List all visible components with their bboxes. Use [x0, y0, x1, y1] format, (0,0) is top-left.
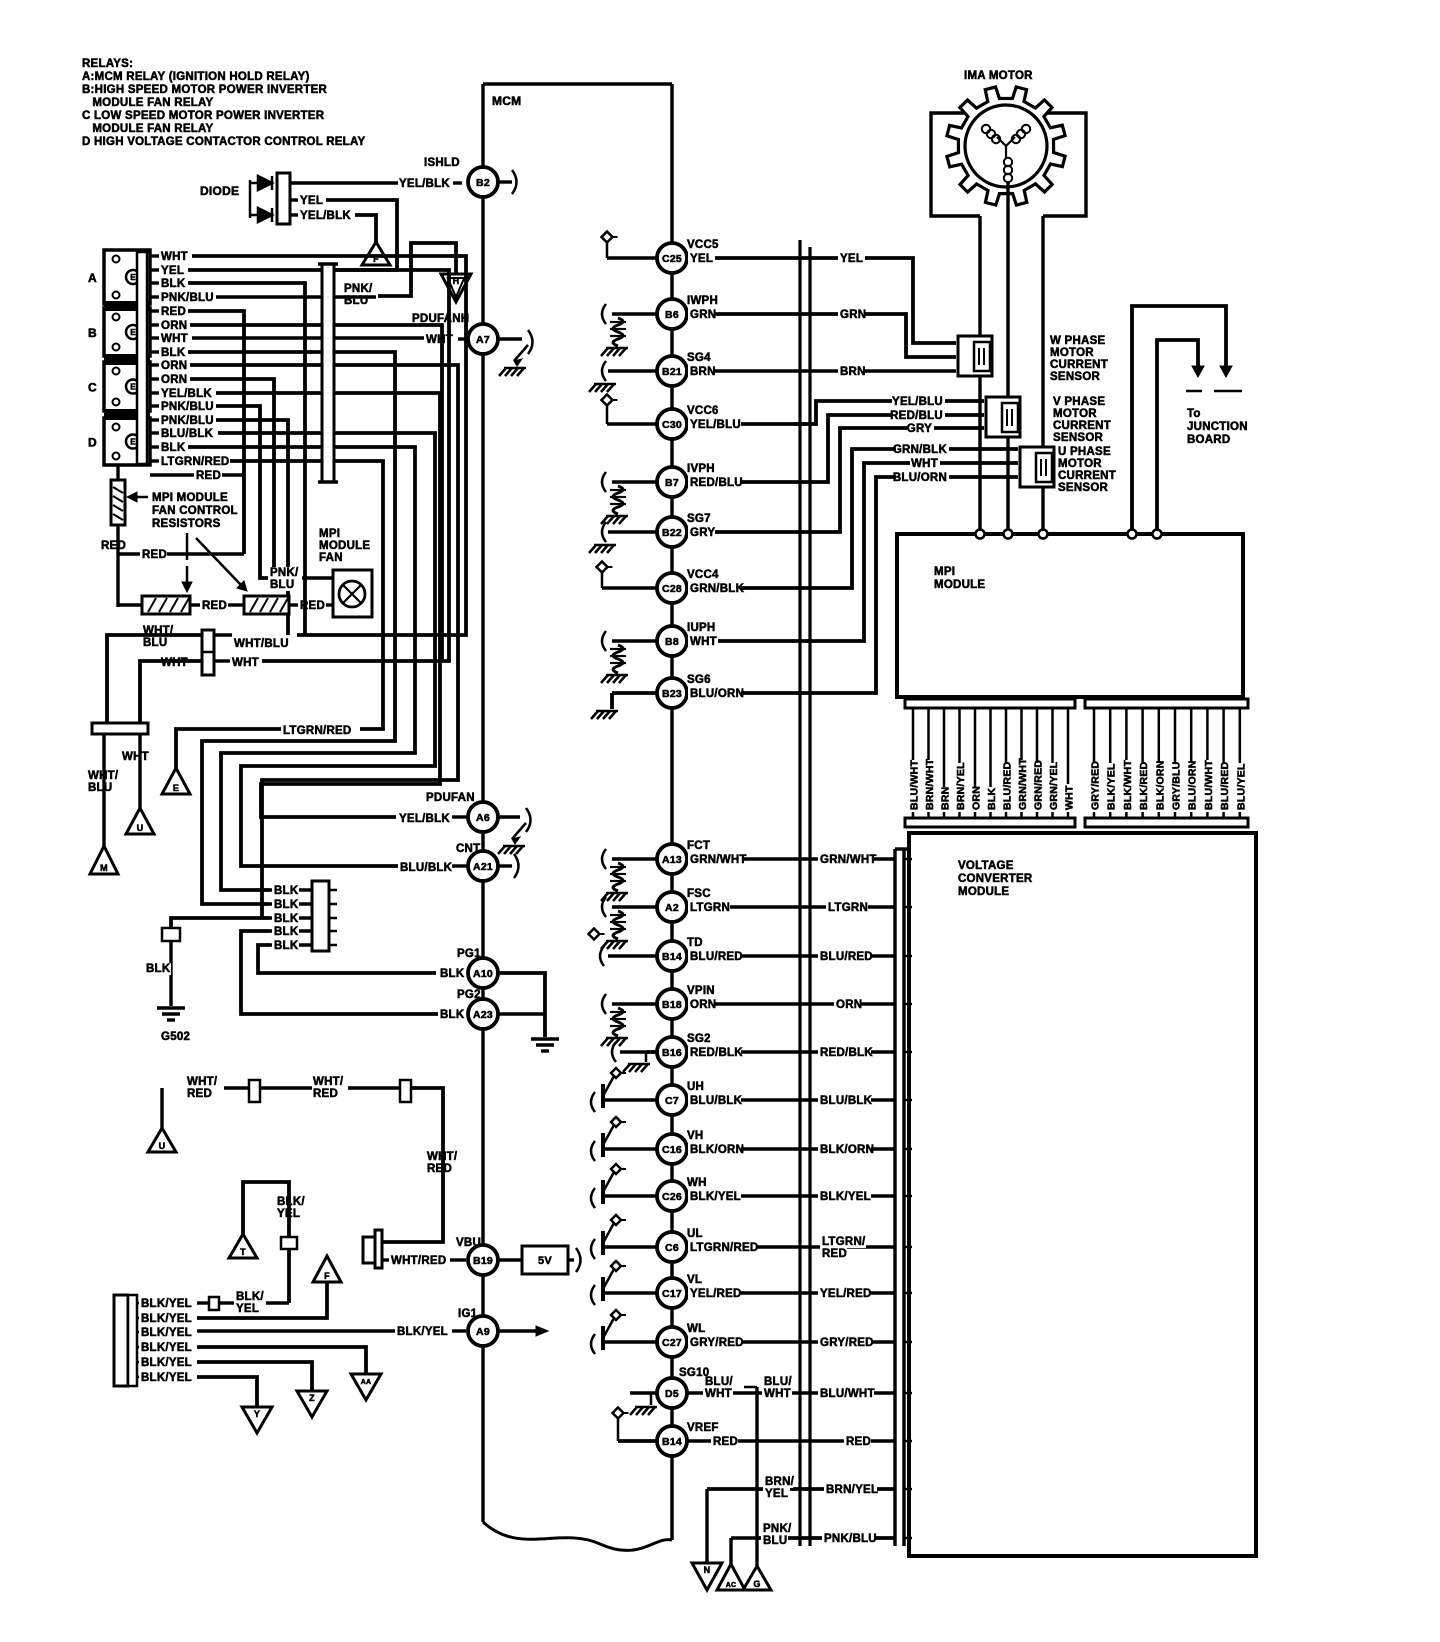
wire BLK relay row y=352: [150, 350, 159, 353]
wire to junction board 2: [1157, 340, 1198, 532]
fuse inline 1: [249, 1080, 260, 1102]
wire LTGRN/RED relay D to connector E: [230, 461, 383, 729]
svg-text:GRY/RED: GRY/RED: [690, 1337, 744, 1349]
svg-text:LTGRN: LTGRN: [828, 902, 868, 914]
wire RED VREF to voltage converter module: [687, 1439, 895, 1442]
svg-text:MODULE FAN RELAY: MODULE FAN RELAY: [82, 97, 214, 109]
wire YEL/RED to voltage converter module: [687, 1291, 895, 1294]
svg-text:BLU/BLK: BLU/BLK: [161, 428, 214, 440]
wire GRN/BLK C28 to U phase sensor: [687, 449, 1018, 588]
wire RED relay D row: [150, 473, 194, 476]
U phase motor current sensor: [1020, 447, 1054, 487]
svg-text:RED/BLU: RED/BLU: [890, 410, 943, 422]
svg-text:RED: RED: [187, 1088, 212, 1100]
svg-text:SG2: SG2: [687, 1033, 711, 1045]
wire pin BLK: [989, 708, 992, 818]
node B22 left ground: [608, 530, 657, 533]
node B18 VPIN: [657, 989, 687, 1019]
svg-text:BLK: BLK: [440, 968, 465, 980]
svg-text:M: M: [100, 863, 108, 873]
svg-text:FCT: FCT: [687, 840, 710, 852]
connector Z triangle: [297, 1391, 327, 1417]
splice connector WHT/BLU: [202, 630, 214, 675]
svg-text:B22: B22: [662, 527, 682, 539]
MPI module lower connector bar left: [905, 699, 1075, 708]
svg-text:GRN/YEL: GRN/YEL: [1048, 761, 1060, 810]
svg-text:MODULE: MODULE: [934, 579, 985, 591]
node D5 left ground: [630, 1391, 657, 1394]
node C7 UH: [657, 1085, 687, 1115]
wire BLK/YEL to voltage converter module: [687, 1194, 895, 1197]
svg-text:B:HIGH SPEED MOTOR POWER INVER: B:HIGH SPEED MOTOR POWER INVERTER: [82, 84, 328, 96]
svg-text:PNK/: PNK/: [763, 1523, 792, 1535]
wire YEL/BLU C30 to V phase sensor: [687, 401, 984, 424]
svg-text:E: E: [130, 438, 136, 447]
svg-text:LTGRN/RED: LTGRN/RED: [161, 456, 229, 468]
node A6 PDUFAN: [452, 815, 468, 818]
svg-text:WHT/: WHT/: [427, 1151, 458, 1163]
svg-text:A21: A21: [473, 861, 493, 873]
connector AA triangle: [351, 1374, 381, 1400]
svg-text:PNK/BLU: PNK/BLU: [161, 415, 214, 427]
svg-text:AA: AA: [361, 1379, 372, 1386]
svg-text:VCC6: VCC6: [687, 405, 719, 417]
svg-text:B18: B18: [662, 999, 682, 1011]
node B6 IWPH: [657, 299, 687, 329]
svg-text:WHT: WHT: [122, 751, 149, 763]
wire BLK ground pin y=945: [270, 943, 312, 946]
svg-text:ORN: ORN: [690, 999, 716, 1011]
wire BLK pin5 to A10: [258, 945, 436, 973]
node C28 VCC4: [657, 573, 687, 603]
svg-text:BLK/RED: BLK/RED: [1138, 761, 1150, 810]
svg-text:WHT: WHT: [911, 458, 938, 470]
node B7 IVPH: [657, 467, 687, 497]
diode D1 bottom: [258, 208, 272, 222]
connector F2 triangle: [313, 1256, 341, 1282]
wire BLK/YEL pin5 to Z: [197, 1362, 312, 1391]
svg-text:GRY/RED: GRY/RED: [820, 1337, 874, 1349]
svg-text:BOARD: BOARD: [1187, 434, 1230, 446]
svg-text:WHT: WHT: [705, 1388, 732, 1400]
wire LTGRN/RED C6 to voltage converter module: [687, 1245, 895, 1248]
svg-text:BLK/: BLK/: [277, 1196, 305, 1208]
svg-text:WHT: WHT: [161, 251, 188, 263]
MPI module box: [897, 534, 1243, 697]
relay C connector: [104, 362, 150, 411]
node B14 TD: [657, 941, 687, 971]
svg-text:BLU/ORN: BLU/ORN: [893, 472, 947, 484]
svg-text:PNK/BLU: PNK/BLU: [824, 1533, 877, 1545]
svg-text:BLU/WHT: BLU/WHT: [820, 1388, 875, 1400]
wire RED/BLK to voltage converter module: [687, 1050, 895, 1053]
node C7 left transistor: [591, 1092, 595, 1112]
svg-text:IUPH: IUPH: [687, 622, 715, 634]
svg-text:RED: RED: [161, 306, 186, 318]
inline connector BLK: [162, 928, 180, 941]
wire WHT/BLU down to M: [102, 734, 105, 847]
svg-text:BLU: BLU: [88, 782, 112, 794]
svg-text:ORN: ORN: [836, 999, 862, 1011]
svg-text:WHT: WHT: [1064, 785, 1076, 810]
V phase motor current sensor: [986, 397, 1020, 437]
wire diode anodes: [250, 182, 258, 185]
svg-text:MOTOR: MOTOR: [1053, 408, 1097, 420]
node C6 UL: [657, 1232, 687, 1262]
wire BLU/BLK relay row y=433: [150, 431, 159, 434]
svg-text:VPIN: VPIN: [687, 985, 715, 997]
svg-text:E: E: [130, 383, 136, 392]
svg-text:BLK/YEL: BLK/YEL: [141, 1313, 192, 1325]
wire BLU/WHT branch to connector G: [744, 1386, 757, 1389]
svg-text:VCC5: VCC5: [687, 239, 719, 251]
svg-text:W PHASE: W PHASE: [1050, 335, 1106, 347]
svg-text:ORN: ORN: [161, 320, 187, 332]
svg-text:MOTOR: MOTOR: [1058, 458, 1102, 470]
svg-text:LTGRN/: LTGRN/: [822, 1236, 866, 1248]
svg-text:GRN: GRN: [690, 309, 716, 321]
svg-text:G: G: [753, 1579, 760, 1589]
svg-text:VREF: VREF: [687, 1422, 719, 1434]
svg-text:WHT: WHT: [161, 657, 188, 669]
node C27 left transistor: [591, 1334, 595, 1354]
wire YEL/BLK relay C to A6: [216, 393, 440, 817]
IMA motor windings: [997, 137, 1006, 146]
node A10 PG1: [468, 958, 498, 988]
wire GRN/WHT to voltage converter module: [687, 857, 895, 860]
svg-text:GRY: GRY: [690, 527, 715, 539]
svg-text:U PHASE: U PHASE: [1058, 446, 1111, 458]
svg-text:YEL/BLK: YEL/BLK: [161, 388, 212, 400]
wire ORN relay C staircase 1: [190, 365, 458, 918]
svg-text:E: E: [130, 273, 136, 282]
node B7 left coil ground: [612, 480, 657, 483]
wire BLU/RED to voltage converter module: [687, 954, 895, 957]
node A9 IG1: [197, 1329, 395, 1332]
wire BLK ground pin y=931: [270, 929, 312, 932]
wire BLK/YEL pin4 to AA: [197, 1347, 366, 1374]
wire RED to resistor R2: [118, 603, 142, 606]
wire PNK/BLU to voltage converter module: [757, 1536, 895, 1540]
svg-text:SENSOR: SENSOR: [1050, 371, 1101, 383]
svg-text:WH: WH: [687, 1177, 707, 1189]
svg-text:WHT/: WHT/: [187, 1076, 218, 1088]
wire BLU/BLK to voltage converter module: [687, 1098, 895, 1101]
wire WHT B8 to U phase sensor: [687, 463, 1018, 641]
svg-text:B21: B21: [662, 366, 682, 378]
wire LTGRN/RED relay row y=461: [150, 459, 159, 462]
svg-text:BLU/RED: BLU/RED: [1002, 761, 1014, 810]
connector G triangle: [743, 1566, 771, 1590]
node A13 FCT: [657, 844, 687, 874]
svg-text:BLK/YEL: BLK/YEL: [141, 1298, 192, 1310]
svg-text:RED: RED: [101, 540, 126, 552]
svg-text:WL: WL: [687, 1323, 705, 1335]
node B14 VREF: [657, 1426, 687, 1456]
wire PNK/BLU relay A to connector H: [378, 243, 456, 296]
wire BLK pin4 to A23: [241, 931, 438, 1014]
svg-text:BLU/RED: BLU/RED: [1219, 761, 1231, 810]
svg-text:C26: C26: [662, 1191, 682, 1203]
wire BLK ground pin y=904: [270, 902, 312, 905]
voltage converter strip ticks: [904, 858, 912, 861]
svg-text:MPI: MPI: [319, 528, 340, 540]
svg-text:BLK: BLK: [274, 885, 299, 897]
svg-text:BRN/WHT: BRN/WHT: [924, 758, 936, 810]
wire pin BLK/RED: [1141, 708, 1144, 818]
svg-text:BRN/YEL: BRN/YEL: [955, 762, 967, 810]
svg-text:VCC4: VCC4: [687, 569, 719, 581]
junction board dashes: [1186, 390, 1202, 393]
svg-text:TD: TD: [687, 937, 703, 949]
node B16 left ground: [646, 1050, 657, 1054]
svg-text:UH: UH: [687, 1081, 704, 1093]
wire BRN/YEL to voltage converter module: [707, 1487, 895, 1491]
svg-text:IMA MOTOR: IMA MOTOR: [964, 70, 1033, 82]
svg-text:WHT: WHT: [161, 333, 188, 345]
node A7 PDUFANH: [468, 324, 498, 354]
wire PNK/BLU relay A right: [216, 295, 376, 298]
svg-text:PNK/BLU: PNK/BLU: [161, 292, 214, 304]
node D5 SG10: [657, 1378, 687, 1408]
wire YEL diode: [290, 198, 298, 201]
svg-text:A23: A23: [473, 1009, 493, 1021]
svg-text:YEL/RED: YEL/RED: [820, 1288, 872, 1300]
svg-text:FSC: FSC: [687, 888, 711, 900]
svg-text:PG1: PG1: [457, 948, 481, 960]
shield bus line 2: [808, 247, 811, 1546]
svg-text:BLU/: BLU/: [764, 1376, 792, 1388]
svg-text:D HIGH VOLTAGE CONTACTOR CONTR: D HIGH VOLTAGE CONTACTOR CONTROL RELAY: [82, 136, 365, 148]
fuse inline 2: [400, 1080, 411, 1102]
node B21 left ground diamond: [608, 369, 657, 372]
svg-text:YEL: YEL: [690, 253, 713, 265]
svg-text:VBU: VBU: [456, 1237, 481, 1249]
wire PNK/BLU relay row y=406: [150, 404, 159, 407]
node C27 WL: [657, 1327, 687, 1357]
svg-text:N: N: [704, 1565, 711, 1575]
relay connector separator bands: [104, 301, 150, 311]
svg-text:VOLTAGE: VOLTAGE: [958, 860, 1014, 872]
wire BLK to ground: [169, 941, 172, 1006]
svg-text:CNT: CNT: [456, 843, 480, 855]
svg-text:BLU/BLK: BLU/BLK: [400, 862, 453, 874]
svg-text:GRY/BLU: GRY/BLU: [1171, 761, 1183, 810]
svg-text:D5: D5: [665, 1388, 679, 1400]
svg-text:WHT/: WHT/: [143, 625, 174, 637]
svg-text:GRY/RED: GRY/RED: [1090, 761, 1102, 810]
svg-text:PG2: PG2: [457, 989, 481, 1001]
svg-text:ORN: ORN: [161, 360, 187, 372]
svg-text:F: F: [324, 1271, 330, 1281]
wire PNK/BLU relay row y=297: [150, 295, 159, 298]
connector H triangle: [441, 274, 471, 302]
svg-text:C7: C7: [665, 1095, 679, 1107]
node B19 VBU: [468, 1245, 498, 1275]
svg-text:B19: B19: [473, 1255, 493, 1267]
svg-text:WHT/: WHT/: [313, 1076, 344, 1088]
svg-text:GRY: GRY: [907, 423, 932, 435]
svg-text:BLK: BLK: [440, 1009, 465, 1021]
svg-text:GRN/WHT: GRN/WHT: [1017, 758, 1029, 810]
node B6 left coil ground: [612, 312, 657, 315]
svg-text:B23: B23: [662, 688, 682, 700]
svg-text:RELAYS:: RELAYS:: [82, 58, 133, 70]
svg-text:WHT: WHT: [232, 657, 259, 669]
wire pin GRN/YEL: [1051, 708, 1054, 818]
svg-text:RED/BLU: RED/BLU: [690, 477, 743, 489]
MPI module top connector dots: [976, 530, 985, 539]
IMA motor gear: [947, 87, 1065, 205]
diode connector bar: [277, 173, 290, 224]
svg-text:PDUFANH: PDUFANH: [412, 313, 469, 325]
wire BLK/YEL pin y=1318: [137, 1317, 140, 1320]
wire pin ORN: [974, 708, 977, 818]
svg-text:RED/BLK: RED/BLK: [820, 1047, 873, 1059]
svg-text:BLK: BLK: [274, 940, 299, 952]
node B16 SG2: [657, 1037, 687, 1067]
node B14 VREF left diamond: [618, 1439, 657, 1443]
svg-text:RED: RED: [822, 1248, 847, 1260]
svg-text:BRN: BRN: [840, 366, 866, 378]
node A2 FSC: [657, 892, 687, 922]
svg-text:BLK/YEL: BLK/YEL: [141, 1342, 192, 1354]
svg-text:A2: A2: [665, 902, 679, 914]
svg-text:BLK/ORN: BLK/ORN: [1154, 760, 1166, 810]
svg-text:YEL: YEL: [277, 1208, 300, 1220]
svg-text:BLK: BLK: [986, 788, 998, 810]
arrow to resistor R3: [196, 538, 241, 585]
connector VBU: [363, 1237, 375, 1263]
wire WHT splice right: [214, 659, 230, 662]
wire pin BLU/WHT: [912, 708, 915, 818]
svg-text:VL: VL: [687, 1274, 702, 1286]
relay connector spine: [137, 252, 147, 464]
wire PNK/BLU relay row y=420: [150, 418, 159, 421]
svg-text:PDUFAN: PDUFAN: [426, 792, 475, 804]
svg-text:U: U: [159, 1141, 166, 1151]
svg-text:MODULE: MODULE: [319, 540, 370, 552]
svg-text:YEL: YEL: [236, 1303, 259, 1315]
arrow to resistor R2: [186, 533, 189, 560]
svg-text:SENSOR: SENSOR: [1053, 432, 1104, 444]
node B23 SG6: [657, 678, 687, 708]
svg-text:E: E: [130, 328, 136, 337]
svg-text:MODULE: MODULE: [958, 886, 1009, 898]
wire RED resistor to fan: [289, 603, 298, 606]
svg-text:BLK/: BLK/: [236, 1291, 264, 1303]
wire A9 arrow right: [498, 1329, 540, 1332]
wire GRN B6 to W phase sensor: [687, 314, 956, 357]
shield bus line 1: [798, 240, 801, 1546]
svg-text:BLU/BLK: BLU/BLK: [690, 1095, 743, 1107]
voltage converter module box: [909, 833, 1256, 1556]
svg-text:BLK: BLK: [161, 278, 186, 290]
wire pin BRN/YEL: [958, 708, 961, 818]
svg-text:BLK: BLK: [161, 442, 186, 454]
svg-text:JUNCTION: JUNCTION: [1187, 421, 1248, 433]
node A23 PG2: [468, 999, 498, 1029]
wire pin WHT: [1067, 708, 1070, 818]
wire to junction board 1: [1132, 306, 1226, 532]
svg-text:SG4: SG4: [687, 352, 711, 364]
wire ORN relay row y=379: [150, 377, 159, 380]
voltage converter upper connector bar left: [905, 818, 1075, 827]
svg-text:GRN/BLK: GRN/BLK: [690, 583, 745, 595]
svg-text:GRN: GRN: [840, 309, 866, 321]
svg-text:BLU: BLU: [270, 579, 294, 591]
wire BLK/YEL pin1 to T: [197, 1301, 209, 1304]
svg-text:C27: C27: [662, 1337, 682, 1349]
svg-text:MCM: MCM: [492, 94, 521, 108]
wire pin BLU/ORN: [1190, 708, 1193, 818]
svg-text:WHT: WHT: [764, 1388, 791, 1400]
svg-text:BLK: BLK: [274, 899, 299, 911]
wire RED below resistor R1: [116, 525, 119, 607]
wire WHT relay row y=338: [150, 336, 159, 339]
wire BLK relay row y=283: [150, 281, 159, 284]
svg-text:B14: B14: [662, 951, 682, 963]
node C16 left transistor: [591, 1141, 595, 1161]
resistor R3 fan control: [244, 596, 289, 614]
svg-text:BLK: BLK: [274, 913, 299, 925]
wire BLK/YEL pin6 to Y: [197, 1377, 257, 1407]
svg-text:MOTOR: MOTOR: [1050, 347, 1094, 359]
svg-text:To: To: [1187, 408, 1201, 420]
wire RED relay B down: [188, 311, 244, 554]
svg-text:WHT/: WHT/: [88, 770, 119, 782]
node C28 left diamond: [597, 562, 608, 573]
svg-text:YEL/RED: YEL/RED: [690, 1288, 742, 1300]
wire BLU/WHT D5 to voltage converter module: [687, 1391, 895, 1394]
node B23 left ground: [612, 691, 657, 695]
svg-text:BLU/YEL: BLU/YEL: [1235, 763, 1247, 810]
svg-text:AC: AC: [726, 1582, 737, 1589]
node B21 SG4: [657, 356, 687, 386]
node C17 VL: [657, 1278, 687, 1308]
svg-text:BLU: BLU: [763, 1535, 787, 1547]
svg-text:A: A: [88, 271, 97, 285]
svg-text:PNK/BLU: PNK/BLU: [161, 401, 214, 413]
svg-text:U: U: [137, 823, 144, 833]
node C25 left diamond: [602, 232, 613, 243]
wire A21 right bracket: [498, 864, 512, 867]
connector N triangle: [692, 1563, 722, 1590]
svg-text:A7: A7: [476, 334, 490, 346]
wire pin BLU/RED: [1005, 708, 1008, 818]
svg-text:BLK/YEL: BLK/YEL: [141, 1327, 192, 1339]
svg-text:FAN: FAN: [319, 552, 343, 564]
svg-text:BRN: BRN: [690, 366, 716, 378]
svg-text:A:MCM RELAY (IGNITION HOLD REL: A:MCM RELAY (IGNITION HOLD RELAY): [82, 71, 310, 83]
svg-text:D: D: [88, 436, 97, 450]
wire YEL relay A to splice: [188, 270, 449, 661]
wire PNK/BLU relay D staircase: [216, 420, 288, 635]
node C26 left transistor: [591, 1188, 595, 1208]
wire RED between resistors: [190, 603, 200, 606]
svg-text:WHT/BLU: WHT/BLU: [234, 638, 289, 650]
svg-text:RED: RED: [142, 549, 167, 561]
wire A6 right to chassis ground: [498, 815, 520, 818]
svg-text:BLK: BLK: [274, 926, 299, 938]
svg-text:PNK/: PNK/: [270, 567, 299, 579]
wire LTGRN to voltage converter module: [687, 905, 895, 908]
svg-text:MPI: MPI: [934, 566, 955, 578]
wire WHT/BLU splice left: [107, 635, 202, 723]
svg-text:BRN/: BRN/: [765, 1476, 795, 1488]
svg-text:ISHLD: ISHLD: [424, 157, 460, 169]
svg-text:VH: VH: [687, 1130, 703, 1142]
